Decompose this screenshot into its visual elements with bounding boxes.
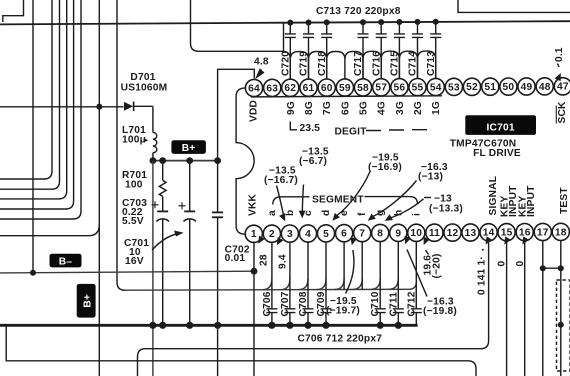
wire pin 3 down <box>289 242 291 290</box>
svg-text:61: 61 <box>303 83 315 94</box>
wire fillet pin 6 <box>335 279 345 290</box>
pin 3 <box>281 225 298 242</box>
svg-text:C710: C710 <box>370 291 381 316</box>
pin 57 <box>373 79 390 96</box>
capacitor C716 <box>371 19 386 79</box>
svg-text:VKK: VKK <box>247 193 258 216</box>
wire rail to R701 <box>162 161 164 181</box>
svg-text:12: 12 <box>447 228 459 239</box>
node junction -30V bus x=290 <box>286 322 293 329</box>
leader arrow to pin 5 <box>337 172 370 216</box>
leader arrow to pin 4 <box>302 185 303 213</box>
node junction -30V bus L701 wire <box>149 322 156 329</box>
svg-text:C707: C707 <box>280 291 291 316</box>
capacitor C715 <box>390 19 405 79</box>
wire diode to inductor <box>152 106 154 132</box>
pin 48 <box>536 78 553 95</box>
pin 11 <box>426 224 443 241</box>
wire L701 branch down long <box>152 161 154 376</box>
node junction -30V bus x=398 <box>395 322 402 329</box>
wire fillet pin 5 <box>317 279 327 290</box>
pin 5 <box>317 225 334 242</box>
wire vertical V1 <box>32 0 34 273</box>
svg-text:18: 18 <box>555 227 567 238</box>
svg-text:9.4: 9.4 <box>278 254 289 269</box>
svg-text:2G: 2G <box>413 101 424 115</box>
wire pin 10 down <box>415 241 417 308</box>
svg-text:a: a <box>267 210 278 216</box>
label B- box <box>50 254 82 268</box>
wire rail to C704 and 4.8 callout riser <box>218 69 255 160</box>
leader arrow to pin 9 <box>407 250 427 297</box>
svg-text:16V: 16V <box>125 256 144 267</box>
capacitor C717 <box>353 19 368 79</box>
leader arrow to pin 10 <box>426 250 429 255</box>
pin 51 <box>482 78 499 95</box>
capacitor C714 <box>408 19 423 79</box>
svg-text:C712: C712 <box>406 291 417 316</box>
pin 8 <box>372 224 389 241</box>
resistor R701 <box>159 180 166 196</box>
wire fillet pin 2 <box>262 279 272 290</box>
leader arrow to pin 3 <box>277 186 284 217</box>
svg-text:7G: 7G <box>322 101 333 115</box>
pin 59 <box>336 79 353 96</box>
pin 64 <box>245 79 262 96</box>
IC top scalloped arcade <box>290 51 435 79</box>
svg-text:B+: B+ <box>83 294 94 308</box>
svg-text:b: b <box>285 210 296 216</box>
svg-text:100μ: 100μ <box>122 135 146 146</box>
svg-text:C706: C706 <box>262 291 273 316</box>
svg-text:1G: 1G <box>431 101 442 115</box>
node junction B+ rail x=190 <box>186 157 193 164</box>
capacitor C704 <box>212 161 223 326</box>
svg-text:49: 49 <box>521 82 533 93</box>
pin 13 <box>462 224 479 241</box>
pin 56 <box>391 79 408 96</box>
svg-text:B–: B– <box>59 256 73 267</box>
svg-text:(−13.3): (−13.3) <box>429 204 463 215</box>
leader arrow to pin 8 <box>390 199 424 218</box>
wire pin 16 down <box>524 241 526 376</box>
pin 50 <box>500 78 517 95</box>
node junction pin18 lower <box>558 322 564 328</box>
svg-text:62: 62 <box>284 83 296 94</box>
svg-text:9: 9 <box>395 228 401 239</box>
label -13 (-13.3) <box>424 197 431 199</box>
wire pin 5 down <box>325 242 327 290</box>
svg-text:(−16.9): (−16.9) <box>368 162 402 173</box>
pin 6 <box>336 225 353 242</box>
wire fillet pin 4 <box>299 279 309 290</box>
capacitor C707 <box>280 290 296 326</box>
wire fillet pin 3 <box>280 279 290 290</box>
svg-text:7: 7 <box>359 229 365 240</box>
pin 53 <box>445 78 462 95</box>
pin 55 <box>409 79 426 96</box>
wire pin 6 down <box>343 242 345 290</box>
svg-text:57: 57 <box>375 83 387 94</box>
pin 63 <box>264 79 281 96</box>
svg-text:2: 2 <box>269 229 275 240</box>
node junction -30V bus x=163 <box>159 322 166 329</box>
svg-text:54: 54 <box>430 82 442 93</box>
wire B- horizontal <box>0 271 254 273</box>
wire inductor to B+ rail <box>152 153 154 161</box>
svg-text:5: 5 <box>323 229 329 240</box>
svg-text:f: f <box>357 212 368 216</box>
node junction D701 anode wire <box>96 104 102 110</box>
capacitor C708 <box>298 290 314 326</box>
svg-text:63: 63 <box>266 83 278 94</box>
capacitor C712 <box>406 289 422 325</box>
svg-text:SEGMENT: SEGMENT <box>312 195 364 206</box>
node junction pin17 link <box>540 265 546 271</box>
wire pin17-pin18 link <box>543 267 561 269</box>
node junction B+ rail x=153 <box>150 157 157 164</box>
pin 2 <box>263 225 280 242</box>
svg-text:3G: 3G <box>395 101 406 115</box>
wire C701 to -30V bus <box>189 220 191 326</box>
svg-text:58: 58 <box>357 83 369 94</box>
svg-text:d: d <box>321 210 332 216</box>
node junction B+ rail x=218 <box>214 157 221 164</box>
svg-text:6: 6 <box>341 229 347 240</box>
wire pin 8 down <box>379 242 381 290</box>
wire vertical V8 to segment bus <box>117 0 125 290</box>
svg-text:C708: C708 <box>298 291 309 316</box>
svg-text:B+: B+ <box>182 143 196 154</box>
svg-text:6G: 6G <box>340 101 351 115</box>
diode D701 <box>124 102 153 112</box>
pin 58 <box>354 79 371 96</box>
svg-text:60: 60 <box>321 83 333 94</box>
svg-text:0 141 1·: 0 141 1· <box>477 256 488 295</box>
svg-text:D701: D701 <box>130 72 155 83</box>
wire pin 9 down <box>397 242 399 290</box>
wire fillet pin 9 <box>389 278 399 289</box>
pin 1 <box>245 225 262 242</box>
pin 54 <box>427 78 444 95</box>
capacitor C703 polarized <box>152 201 169 221</box>
svg-text:11: 11 <box>429 228 440 239</box>
svg-text:SCK: SCK <box>557 101 568 124</box>
pin 60 <box>318 79 335 96</box>
dashed option box <box>557 280 570 371</box>
svg-text:17: 17 <box>537 227 549 238</box>
IC701 top edge <box>251 96 442 97</box>
svg-text:50: 50 <box>503 82 515 93</box>
svg-text:8G: 8G <box>304 101 315 115</box>
leader arrow label to pin 7 <box>346 250 354 294</box>
svg-text:10: 10 <box>410 228 422 239</box>
svg-text:51: 51 <box>484 82 496 93</box>
capacitor C709 <box>316 290 332 326</box>
wire top right entry <box>458 0 570 12</box>
pin 9 <box>390 224 407 241</box>
inductor L701 <box>153 132 157 152</box>
svg-text:59: 59 <box>339 83 351 94</box>
svg-text:US1060M: US1060M <box>121 83 168 94</box>
wire vertical bend V5 <box>0 0 74 209</box>
svg-text:16: 16 <box>519 228 531 239</box>
svg-text:FL DRIVE: FL DRIVE <box>473 148 521 159</box>
wire pin 14 down and left <box>138 241 489 376</box>
label B+ box <box>171 140 206 154</box>
wire segment return bus <box>125 288 409 291</box>
wire bus right fillet into pin 10 <box>409 281 416 289</box>
node junction -30V bus x=218 <box>214 322 221 329</box>
svg-text:(−6.7): (−6.7) <box>299 156 327 167</box>
wire R701 to C703 <box>162 196 164 210</box>
pin 18 <box>552 223 569 240</box>
wire fillet pin 7 <box>353 278 363 289</box>
wire pin 18 down <box>560 241 562 376</box>
svg-text:(−20): (−20) <box>432 253 443 278</box>
svg-text:14: 14 <box>483 228 495 239</box>
svg-text:4.8: 4.8 <box>254 57 269 68</box>
svg-text:1: 1 <box>251 229 257 240</box>
wire bus left corner down <box>283 23 285 53</box>
pin 10 <box>408 224 425 241</box>
svg-text:C706 712 220px7: C706 712 220px7 <box>298 334 383 345</box>
leader arrow to pin 14 <box>482 249 484 251</box>
node junction -30V bus x=190 <box>186 322 193 329</box>
node junction -30V bus x=326 <box>322 322 329 329</box>
wire rail to C701 <box>189 161 191 211</box>
capacitor C720 <box>281 20 296 80</box>
svg-text:i: i <box>411 213 422 216</box>
svg-text:SIGNAL: SIGNAL <box>488 176 499 216</box>
svg-text:IC701: IC701 <box>487 122 515 133</box>
svg-text:INPUT: INPUT <box>526 185 537 217</box>
wire top-left corner stub <box>3 0 24 22</box>
label SEGMENT bracket <box>273 197 418 205</box>
wire B+ rail <box>153 160 218 162</box>
capacitor C718 <box>317 19 332 79</box>
pin 52 <box>463 78 480 95</box>
wire C703 to -30V bus <box>162 220 164 326</box>
svg-text:5G: 5G <box>359 101 370 115</box>
svg-text:13: 13 <box>465 228 477 239</box>
capacitor C706 <box>262 290 278 326</box>
wire pin 15 down <box>506 241 508 376</box>
pin 7 <box>354 225 371 242</box>
pin 16 <box>516 224 533 241</box>
wire bend joining V7 <box>0 225 99 236</box>
node junction -30V bus x=272 <box>268 322 275 329</box>
svg-text:(−13): (−13) <box>418 172 443 183</box>
svg-text:0.1: 0.1 <box>554 47 565 62</box>
wire fillet pin 8 <box>371 278 381 289</box>
capacitor C719 <box>299 20 314 80</box>
svg-text:52: 52 <box>466 82 478 93</box>
capacitor C713 <box>426 19 441 79</box>
wire vertical V7 full height <box>98 0 100 376</box>
node junction B- pin1 wire <box>251 268 258 275</box>
wire pin 4 down <box>307 242 309 290</box>
svg-text:56: 56 <box>394 83 406 94</box>
node junction -30V bus x=380 <box>377 322 384 329</box>
wire pin 17 down <box>542 241 544 376</box>
wire vertical bend V3 <box>0 0 60 189</box>
pin 61 <box>300 79 317 96</box>
svg-text:C711: C711 <box>388 292 399 317</box>
pin 62 <box>282 79 299 96</box>
pin 12 <box>444 224 461 241</box>
wire pin 2 down <box>271 242 273 289</box>
svg-text:4G: 4G <box>377 101 388 115</box>
svg-text:3: 3 <box>287 229 293 240</box>
label B+ vertical box <box>77 284 96 318</box>
leader arrow to pin 7 <box>373 181 417 217</box>
leader arrow C701 <box>152 234 179 251</box>
wire D701 anode <box>0 106 124 108</box>
svg-text:15: 15 <box>501 228 513 239</box>
pin 15 <box>498 224 515 241</box>
wire pin 1 VKK down <box>253 242 255 376</box>
node junction B- V1 <box>30 270 36 276</box>
wire bottom long horizontal <box>6 325 476 376</box>
svg-text:0.01: 0.01 <box>225 253 246 264</box>
svg-text:(−19.7): (−19.7) <box>326 306 360 317</box>
svg-text:64: 64 <box>248 83 260 94</box>
capacitor C701 polarized <box>179 202 196 221</box>
svg-text:55: 55 <box>412 83 424 94</box>
svg-text:(−16.7): (−16.7) <box>264 175 298 186</box>
pin 47 <box>554 78 570 95</box>
wire pin 7 down <box>361 242 363 290</box>
IC701 body left edge with notch <box>236 88 254 234</box>
svg-text:0: 0 <box>515 261 526 267</box>
svg-text:C713 720 220px8: C713 720 220px8 <box>316 6 401 17</box>
wire C704 below bus <box>217 325 219 376</box>
svg-text:8: 8 <box>377 228 383 239</box>
label 23.5 bracket <box>290 122 297 130</box>
svg-text:(−19.8): (−19.8) <box>423 306 457 317</box>
svg-text:VDD: VDD <box>249 100 260 122</box>
svg-text:9G: 9G <box>286 101 297 115</box>
pin 4 <box>299 225 316 242</box>
svg-text:100: 100 <box>125 180 143 191</box>
svg-text:28: 28 <box>259 254 270 266</box>
IC reference IC701 <box>465 115 536 135</box>
svg-text:53: 53 <box>448 82 460 93</box>
wire -30V thick bus <box>0 324 418 327</box>
wire top-left horizontal bus <box>0 21 570 24</box>
svg-text:23.5: 23.5 <box>300 123 321 134</box>
wire riser to pin 62 <box>191 0 291 79</box>
capacitor C711 <box>388 289 404 325</box>
svg-text:TEST: TEST <box>559 187 570 214</box>
wire vertical bend V4 <box>0 0 67 199</box>
pin 14 <box>480 224 497 241</box>
node junction pin18 link <box>558 265 564 271</box>
pin 49 <box>518 78 535 95</box>
svg-text:0: 0 <box>497 261 508 267</box>
pin 17 <box>534 223 551 240</box>
svg-text:48: 48 <box>539 82 551 93</box>
wire vertical bend V6 <box>0 0 81 219</box>
svg-text:47: 47 <box>557 82 569 93</box>
wire vertical bend V2 <box>0 0 52 179</box>
node junction B+ rail x=163 <box>159 157 166 164</box>
svg-text:DEGIT: DEGIT <box>335 127 368 138</box>
node junction -30V bus x=308 <box>304 322 311 329</box>
capacitor C710 <box>370 289 386 325</box>
svg-text:4: 4 <box>305 229 311 240</box>
svg-text:5.5V: 5.5V <box>122 216 144 227</box>
